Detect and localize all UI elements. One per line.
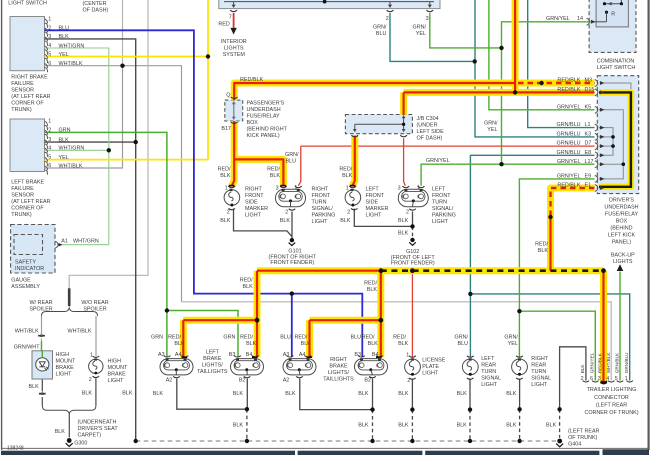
svg-text:1: 1 <box>48 16 51 22</box>
svg-text:GRN/YEL: GRN/YEL <box>546 16 570 22</box>
svg-text:A1: A1 <box>61 239 68 245</box>
wire WHT/GRN sensor1 pin4 to gauge A1 <box>45 48 109 245</box>
svg-text:D7: D7 <box>585 141 592 147</box>
wire BLK sensors net vertical <box>45 39 136 441</box>
back-up lights arrow <box>617 264 624 271</box>
wire GRN/BLU K3 feed from top <box>475 0 595 137</box>
wire BLK trailer pin2 to G404 <box>560 347 586 438</box>
svg-text:BLK: BLK <box>285 391 296 397</box>
svg-text:PANEL): PANEL) <box>612 239 631 245</box>
svg-text:(AT LEFT REAR: (AT LEFT REAR <box>11 94 50 100</box>
wire GRN/YEL K5 feed from top <box>489 0 595 110</box>
trailer connector rotated labels <box>580 352 639 416</box>
svg-text:GRN/BLU: GRN/BLU <box>557 132 581 138</box>
svg-text:1: 1 <box>346 185 349 191</box>
wire BLK left front turn to G102 <box>412 212 414 238</box>
svg-text:2: 2 <box>48 25 51 31</box>
wire BLU branch to right brake light A3 <box>291 294 293 358</box>
svg-text:BLK: BLK <box>220 173 231 179</box>
svg-text:GRN: GRN <box>59 128 71 134</box>
bulb A4 black end mark <box>182 356 188 358</box>
svg-text:WHT/BLK: WHT/BLK <box>15 329 39 335</box>
right brake failure sensor box <box>10 17 45 71</box>
svg-text:LEFT: LEFT <box>366 187 380 193</box>
ground G404 <box>556 439 563 447</box>
svg-text:RIGHT: RIGHT <box>245 187 262 193</box>
svg-text:B17: B17 <box>221 126 231 132</box>
svg-text:BLK: BLK <box>55 429 66 435</box>
svg-text:A2: A2 <box>166 377 173 383</box>
wire GRN/BLU (drawn red) D7 long line <box>298 146 594 186</box>
svg-text:CONNECTOR: CONNECTOR <box>594 395 629 401</box>
svg-text:SPOILER: SPOILER <box>29 306 52 312</box>
svg-text:6: 6 <box>48 61 51 67</box>
svg-text:BLK: BLK <box>398 230 409 236</box>
left front side marker light bulb <box>345 186 361 210</box>
svg-text:138248: 138248 <box>7 445 24 451</box>
svg-text:BLK: BLK <box>358 422 369 428</box>
svg-text:G102: G102 <box>406 249 419 255</box>
svg-text:1: 1 <box>294 185 297 191</box>
svg-text:COMBINATION: COMBINATION <box>597 58 635 64</box>
ground brace for high mount lights <box>42 406 96 438</box>
svg-text:3: 3 <box>598 376 601 382</box>
svg-text:WHT/BLK: WHT/BLK <box>59 163 83 169</box>
svg-text:TURN: TURN <box>432 200 447 206</box>
svg-text:BLK: BLK <box>270 173 281 179</box>
turn signal switch pin14 connector <box>587 18 596 25</box>
svg-text:BLK: BLK <box>233 391 244 397</box>
svg-text:(BEHIND: (BEHIND <box>610 225 632 231</box>
trailer pin3 black end mark <box>601 381 607 383</box>
svg-text:R: R <box>611 11 615 17</box>
interior lights arrow <box>230 28 236 35</box>
svg-text:WHT/GRN: WHT/GRN <box>73 239 99 245</box>
svg-text:MARKER: MARKER <box>245 206 268 212</box>
svg-text:LIGHT: LIGHT <box>108 378 125 384</box>
passenger's underdash fuse/relay box <box>225 100 243 121</box>
svg-text:LIGHT: LIGHT <box>432 219 449 225</box>
svg-text:2: 2 <box>227 209 230 215</box>
svg-text:LIGHT SWITCH: LIGHT SWITCH <box>8 1 47 7</box>
wire GRN/BLK back-up lights to trailer pin5 <box>619 272 621 381</box>
gauge assembly dashed box <box>11 225 55 274</box>
svg-text:FRONT: FRONT <box>312 193 331 199</box>
svg-text:RED/: RED/ <box>240 335 253 341</box>
svg-text:LIGHT: LIGHT <box>422 371 439 377</box>
svg-text:TAILLIGHTS: TAILLIGHTS <box>197 369 228 375</box>
svg-text:BOX: BOX <box>247 120 259 126</box>
footer bar 1 <box>1 451 295 455</box>
svg-text:RED/: RED/ <box>535 241 548 247</box>
svg-text:TURN: TURN <box>531 369 546 375</box>
svg-text:SAFETY: SAFETY <box>15 259 36 265</box>
highlighted RED/BLK main vertical from top <box>512 0 519 92</box>
high mount brake light LED type <box>32 351 53 379</box>
svg-text:2: 2 <box>386 16 389 22</box>
svg-text:LEFT BRAKE: LEFT BRAKE <box>11 180 44 186</box>
svg-text:4: 4 <box>606 376 609 382</box>
svg-text:LIGHT SWITCH: LIGHT SWITCH <box>597 65 636 71</box>
wire GRN/YEL pin14 to L17 <box>502 22 590 164</box>
svg-text:L17: L17 <box>585 159 594 165</box>
svg-text:3: 3 <box>276 185 279 191</box>
svg-text:RED/: RED/ <box>168 335 181 341</box>
dashed BLK ground bus <box>136 440 556 442</box>
svg-text:Q: Q <box>226 93 230 99</box>
svg-text:BLK: BLK <box>398 391 409 397</box>
safety indicator dashed box <box>14 235 43 255</box>
svg-text:BOX: BOX <box>616 218 628 224</box>
svg-text:LIGHT: LIGHT <box>366 213 383 219</box>
svg-text:HIGH: HIGH <box>56 352 70 358</box>
wire RED/BLK J/B to left front turn pin3 <box>404 138 406 186</box>
svg-text:A3: A3 <box>158 352 165 358</box>
svg-text:L1: L1 <box>585 122 591 128</box>
svg-text:BLU: BLU <box>286 158 297 164</box>
svg-text:RIGHT: RIGHT <box>330 357 347 363</box>
svg-text:B4: B4 <box>246 352 253 358</box>
wire GRN branch to left brake light B3 <box>167 311 238 358</box>
svg-text:LIGHTS: LIGHTS <box>224 46 244 52</box>
wire RED/BLK license plate light feed <box>411 271 413 358</box>
svg-text:2: 2 <box>48 128 51 134</box>
svg-text:TAILLIGHTS: TAILLIGHTS <box>323 377 354 383</box>
wire WHT/GRN sensor2 pin4 <box>45 149 109 151</box>
svg-text:OF DASH): OF DASH) <box>83 7 109 13</box>
footer bar 2 <box>298 451 423 455</box>
svg-text:FRONT: FRONT <box>432 193 451 199</box>
svg-text:FRONT FENDER): FRONT FENDER) <box>391 261 435 267</box>
svg-text:G300: G300 <box>74 440 87 446</box>
svg-text:E8: E8 <box>585 150 592 156</box>
wire GRN/BLU top box pin2 drop <box>390 13 475 61</box>
svg-text:A4: A4 <box>175 352 182 358</box>
svg-text:2: 2 <box>406 209 409 215</box>
svg-text:B2: B2 <box>364 377 371 383</box>
svg-text:RED/: RED/ <box>364 280 377 286</box>
svg-text:SIGNAL/: SIGNAL/ <box>432 206 454 212</box>
svg-text:GRN: GRN <box>223 335 235 341</box>
wire WHT/BLK w/spoiler branch <box>41 316 43 343</box>
bulb3 A4 black end mark <box>307 356 313 358</box>
svg-text:3: 3 <box>398 185 401 191</box>
svg-text:1: 1 <box>48 119 51 125</box>
svg-text:2: 2 <box>89 377 92 383</box>
wire GRN/BLU E8 to trailer pin1 and left rear turn light <box>470 155 629 380</box>
svg-text:FRONT FENDER): FRONT FENDER) <box>270 260 314 266</box>
svg-text:BLK: BLK <box>340 218 351 224</box>
svg-text:WHT/GRN: WHT/GRN <box>59 43 85 49</box>
page frame bottom border <box>1 447 649 449</box>
svg-text:RED/: RED/ <box>295 335 308 341</box>
wire GRN/YEL left front turn pin1 to fuse box L17 <box>421 164 594 186</box>
svg-text:REAR: REAR <box>481 363 496 369</box>
svg-text:BLK: BLK <box>546 422 557 428</box>
svg-text:7: 7 <box>229 15 232 21</box>
svg-text:BLK: BLK <box>220 218 231 224</box>
svg-text:RED/BLK: RED/BLK <box>597 352 602 373</box>
svg-text:E1: E1 <box>585 183 592 189</box>
wire BLU net <box>45 30 363 357</box>
page frame left border <box>1 0 3 450</box>
svg-text:BLK: BLK <box>368 341 379 347</box>
svg-text:PARKING: PARKING <box>312 213 336 219</box>
svg-text:LEFT KICK: LEFT KICK <box>608 232 636 238</box>
svg-text:BLK: BLK <box>457 422 468 428</box>
svg-text:INDICATOR: INDICATOR <box>15 266 44 272</box>
svg-text:LIGHTS/: LIGHTS/ <box>202 363 223 369</box>
svg-text:LEFT: LEFT <box>432 187 446 193</box>
wire BLK high mount lights to G300 <box>42 378 96 406</box>
svg-text:LIGHT: LIGHT <box>312 219 329 225</box>
license plate light bulb <box>405 356 421 380</box>
black dashes of rear bus y271 <box>381 269 604 272</box>
svg-text:BLK: BLK <box>580 364 585 374</box>
left rear turn signal light bulb <box>462 356 478 380</box>
spoiler option brace <box>42 308 98 316</box>
svg-text:RIGHT: RIGHT <box>531 356 548 362</box>
svg-text:5: 5 <box>615 376 618 382</box>
svg-text:INTERIOR: INTERIOR <box>221 39 247 45</box>
wire RED interior lights pin7 <box>233 13 235 29</box>
svg-text:SYSTEM: SYSTEM <box>223 52 246 58</box>
svg-text:M3: M3 <box>585 78 593 84</box>
svg-text:BLK: BLK <box>538 248 549 254</box>
node: top box internal junction <box>323 0 327 4</box>
wire GRN/WHT into LED high mount light <box>41 342 43 351</box>
J/B C304 bottom connector marks <box>351 135 407 137</box>
svg-text:BLK: BLK <box>246 341 257 347</box>
svg-text:LIGHT: LIGHT <box>245 213 262 219</box>
svg-text:GRN/: GRN/ <box>484 120 498 126</box>
ground G102 <box>409 238 416 246</box>
svg-text:SENSOR: SENSOR <box>11 88 34 94</box>
wire YEL net <box>45 0 209 160</box>
svg-text:BACK-UP: BACK-UP <box>611 252 635 258</box>
right front side marker light bulb <box>224 186 240 210</box>
svg-text:1: 1 <box>90 352 93 358</box>
svg-text:1: 1 <box>417 185 420 191</box>
svg-text:RED/: RED/ <box>339 166 352 172</box>
svg-text:GRN/: GRN/ <box>455 335 469 341</box>
svg-text:BRAKE: BRAKE <box>329 364 348 370</box>
svg-text:OF DASH): OF DASH) <box>417 135 443 141</box>
wire WHT/BLK sensor2 pin6 riser <box>45 66 123 168</box>
svg-text:BLU: BLU <box>351 335 362 341</box>
wire BLK license plate light <box>411 379 413 440</box>
svg-text:LEFT: LEFT <box>481 356 495 362</box>
svg-text:A3: A3 <box>283 352 290 358</box>
svg-text:BLK: BLK <box>122 390 133 396</box>
svg-text:1: 1 <box>225 185 228 191</box>
svg-text:GRN/BLU: GRN/BLU <box>557 122 581 128</box>
svg-text:2: 2 <box>285 209 288 215</box>
svg-text:RIGHT BRAKE: RIGHT BRAKE <box>11 75 48 81</box>
svg-text:TRUNK): TRUNK) <box>11 212 32 218</box>
svg-text:BLK: BLK <box>82 390 93 396</box>
left brake lights/taillights bulb 2 <box>231 356 264 378</box>
svg-text:MOUNT: MOUNT <box>108 365 128 371</box>
highlighted RED/BLK J/B to left front side marker <box>352 136 355 187</box>
turn pin3 black end mark <box>280 185 286 187</box>
svg-text:6: 6 <box>590 376 593 382</box>
driver's box pin connectors <box>595 80 598 192</box>
svg-text:4: 4 <box>48 43 51 49</box>
wire GRN/YEL E9 to right rear turn light <box>519 179 594 357</box>
svg-text:REAR: REAR <box>531 363 546 369</box>
svg-text:D15: D15 <box>585 87 595 93</box>
svg-text:(LEFT REAR: (LEFT REAR <box>568 428 599 434</box>
svg-text:SIGNAL: SIGNAL <box>481 376 501 382</box>
svg-text:BRAKE: BRAKE <box>203 356 222 362</box>
svg-text:GRN/YEL: GRN/YEL <box>426 158 450 164</box>
svg-text:BLK: BLK <box>506 391 517 397</box>
svg-text:FUSE/RELAY: FUSE/RELAY <box>605 211 639 217</box>
wire BLK sensor2 pin3 <box>45 141 136 143</box>
svg-text:6: 6 <box>48 163 51 169</box>
svg-text:GRN/: GRN/ <box>285 152 299 158</box>
gauge A1 pin connector <box>55 241 63 248</box>
ground G101 <box>289 238 296 246</box>
svg-text:GRN/BLU: GRN/BLU <box>624 352 629 373</box>
svg-text:RED/BLK: RED/BLK <box>557 87 580 93</box>
wire WHT/BLK long horizontal to trailer pin4 <box>182 302 612 381</box>
right brake lights/taillights bulb 2 <box>355 356 388 378</box>
footer bar 4 <box>603 449 650 455</box>
svg-text:4: 4 <box>48 145 51 151</box>
svg-text:CORNER OF: CORNER OF <box>11 206 44 212</box>
svg-text:BLU: BLU <box>458 341 469 347</box>
option split bold mark <box>68 288 71 306</box>
svg-text:BLK: BLK <box>398 218 409 224</box>
svg-text:SIDE: SIDE <box>245 200 258 206</box>
highlighted RED/BLK D15 horizontal <box>404 92 595 114</box>
svg-text:GRN/YEL: GRN/YEL <box>557 174 581 180</box>
svg-text:B2: B2 <box>239 377 246 383</box>
svg-text:(UNDER: (UNDER <box>417 122 438 128</box>
svg-text:LICENSE: LICENSE <box>422 358 445 364</box>
svg-text:UNDERDASH: UNDERDASH <box>247 107 281 113</box>
svg-text:BRAKE: BRAKE <box>108 372 127 378</box>
svg-text:5: 5 <box>48 52 51 58</box>
svg-text:RED/BLK: RED/BLK <box>557 183 580 189</box>
wire BLK left rear turn light <box>469 379 471 440</box>
svg-text:RED/: RED/ <box>393 335 406 341</box>
ground G300 <box>66 438 73 446</box>
svg-text:TRUNK): TRUNK) <box>11 107 32 113</box>
sensor2 pin connector marks <box>45 121 48 174</box>
left brake lights/taillights bulb 1 <box>160 356 193 378</box>
svg-text:G404: G404 <box>568 441 581 447</box>
svg-text:K3: K3 <box>585 132 592 138</box>
svg-text:BLK: BLK <box>153 391 164 397</box>
wire WHT/BLK spoiler feed from top <box>69 0 148 289</box>
inline connector on w/spoiler branch <box>38 335 44 337</box>
svg-text:GRN/: GRN/ <box>373 24 387 30</box>
svg-text:GRN/BLU: GRN/BLU <box>557 150 581 156</box>
J/B C304 dashed box <box>345 115 412 134</box>
svg-text:LIGHTS/: LIGHTS/ <box>328 370 349 376</box>
svg-text:YEL: YEL <box>508 341 518 347</box>
svg-text:LIGHT: LIGHT <box>481 382 498 388</box>
svg-text:YEL: YEL <box>59 52 69 58</box>
svg-text:BLK: BLK <box>457 391 468 397</box>
svg-text:GRN/BLK: GRN/BLK <box>614 352 619 373</box>
svg-text:GAUGE: GAUGE <box>11 277 31 283</box>
svg-text:BLU: BLU <box>376 31 387 37</box>
svg-text:SIGNAL/: SIGNAL/ <box>312 206 334 212</box>
svg-text:RED/BLK: RED/BLK <box>557 78 580 84</box>
svg-text:OF TRUNK): OF TRUNK) <box>568 435 597 441</box>
svg-text:A2: A2 <box>283 377 290 383</box>
svg-text:YEL: YEL <box>416 31 426 37</box>
marker pin1 black end mark <box>229 185 235 187</box>
red dashes of E1 row <box>551 188 595 217</box>
svg-text:LEFT SIDE: LEFT SIDE <box>417 129 445 135</box>
svg-text:DRIVER'S: DRIVER'S <box>609 197 634 203</box>
highlighted RED/BLK rear verticals <box>183 271 603 384</box>
svg-text:BLK: BLK <box>242 284 253 290</box>
svg-text:2: 2 <box>581 376 584 382</box>
left brake failure sensor box <box>10 119 45 172</box>
svg-text:W/O REAR: W/O REAR <box>81 300 108 306</box>
wire BLK left front marker <box>354 209 412 227</box>
svg-text:LIGHT: LIGHT <box>56 371 73 377</box>
right front turn signal/parking light bulb <box>276 186 306 210</box>
svg-text:E9: E9 <box>585 174 592 180</box>
svg-text:FRONT: FRONT <box>245 193 264 199</box>
wire BLK right rear turn light <box>519 379 521 440</box>
wire WHT/BLK vertical from top to pin6 dot <box>122 0 124 66</box>
red dashes of M3 row <box>518 82 595 84</box>
svg-text:GRN/YEL: GRN/YEL <box>590 352 595 373</box>
svg-text:BLK: BLK <box>342 173 353 179</box>
svg-text:(AT LEFT REAR: (AT LEFT REAR <box>11 199 50 205</box>
svg-text:5: 5 <box>48 155 51 161</box>
wire WHT/BLK w/o-spoiler branch to bulb high mount <box>95 316 97 356</box>
svg-text:HIGH: HIGH <box>108 359 122 365</box>
interior lights system box (top, cropped) <box>219 0 440 9</box>
svg-text:G101: G101 <box>288 248 301 254</box>
footer bar 3 <box>425 451 599 455</box>
svg-text:1: 1 <box>406 352 409 358</box>
svg-text:FUSE/RELAY: FUSE/RELAY <box>247 114 281 120</box>
svg-text:KICK PANEL): KICK PANEL) <box>247 133 280 139</box>
svg-text:RED/: RED/ <box>218 166 231 172</box>
trailer connector pin marks <box>583 381 633 382</box>
svg-text:GRN/BLU: GRN/BLU <box>557 141 581 147</box>
svg-text:3: 3 <box>48 137 51 143</box>
svg-text:GRN: GRN <box>151 335 163 341</box>
svg-text:BLK: BLK <box>59 137 70 143</box>
svg-text:DRIVER'S SEAT: DRIVER'S SEAT <box>78 426 119 432</box>
left front turn signal/parking light bulb <box>398 186 428 210</box>
bulb B4 black end mark <box>252 356 258 358</box>
wire BLK right front marker+turn to G101 <box>234 209 293 239</box>
svg-text:CORNER OF: CORNER OF <box>11 101 44 107</box>
driver's box internal bus L1-E8 <box>599 128 613 156</box>
wire GRN/YEL top box pin3 drop <box>430 13 502 48</box>
svg-text:2: 2 <box>407 378 410 384</box>
highlighted RED/BLK B17 down to right front lights <box>232 121 284 186</box>
wire WHT/BLK sensor1 pin6 <box>45 66 182 302</box>
node: J/B C304 internal junction <box>402 123 405 126</box>
svg-text:BLK: BLK <box>506 422 517 428</box>
svg-text:2: 2 <box>347 209 350 215</box>
svg-text:WHT/BLK: WHT/BLK <box>68 329 92 335</box>
left marker pin1 black end mark <box>350 185 356 187</box>
